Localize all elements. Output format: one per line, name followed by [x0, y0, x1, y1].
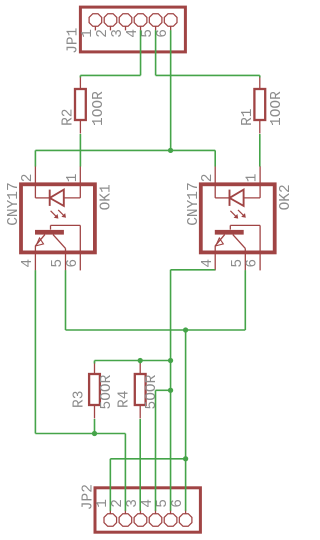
- JP1 pin number 6: [155, 29, 171, 38]
- R4 name label: [116, 391, 132, 408]
- JP1 pin 6 pad circle: [164, 14, 177, 31]
- wire collector rail down to JP2: [185, 330, 187, 511]
- svg-text:6: 6: [245, 259, 261, 268]
- OK1 pin number 4: [20, 259, 36, 268]
- resistor R4 body: [135, 362, 146, 419]
- OK1 value label CNY17: [6, 182, 22, 226]
- connector JP2 box: [95, 488, 200, 532]
- svg-text:2: 2: [110, 499, 126, 508]
- JP1 pin number 5: [140, 29, 156, 38]
- R4 value label 500R: [144, 374, 160, 409]
- JP1 pin 3 pad circle: [119, 14, 132, 31]
- OK1 internal LED (cathode left bar, anode right): [35, 184, 80, 206]
- wire R3/R4 top rail: [95, 361, 171, 364]
- svg-text:6: 6: [65, 259, 81, 268]
- OK2 value label CNY17: [186, 182, 202, 226]
- OK1 pin 2 stub (top-left): [34, 166, 36, 184]
- JP2 pin 2 pad circle: [119, 510, 132, 527]
- JP2 pin number 1: [95, 499, 111, 508]
- OK1 pin 1 stub (top-right): [79, 166, 81, 184]
- resistor R2 body: [75, 77, 86, 134]
- junction collectors/JP2 rail: [183, 327, 188, 332]
- svg-text:R4: R4: [116, 391, 132, 408]
- svg-text:JP2: JP2: [81, 484, 97, 510]
- svg-text:1OOR: 1OOR: [269, 91, 285, 126]
- JP1 pin 5 pad circle: [149, 14, 162, 31]
- svg-text:1: 1: [95, 499, 111, 508]
- svg-text:CNY17: CNY17: [6, 182, 22, 226]
- OK1 pin number 2: [20, 174, 36, 183]
- svg-text:OK1: OK1: [98, 184, 114, 210]
- OK1 pin number 5: [50, 259, 66, 268]
- svg-text:1: 1: [65, 174, 81, 183]
- OK1 pin number 6: [65, 259, 81, 268]
- wire R2 bottom to OK1 pin1: [79, 134, 81, 167]
- OK1 name label: [98, 184, 114, 210]
- svg-text:5: 5: [50, 259, 66, 268]
- svg-text:4: 4: [20, 259, 36, 268]
- svg-text:2: 2: [200, 174, 216, 183]
- resistor R1 body: [254, 77, 265, 134]
- OK2 internal LED (cathode left bar, anode right): [215, 184, 260, 206]
- connector JP1 box: [80, 7, 185, 52]
- wire R3 bottom stub: [94, 419, 96, 434]
- svg-text:6: 6: [155, 29, 171, 38]
- svg-text:4: 4: [125, 29, 141, 38]
- OK2 pin 4 stub (bottom-left): [214, 252, 216, 270]
- svg-text:4: 4: [140, 499, 156, 508]
- R1 name label: [240, 108, 256, 125]
- JP2 pin number 4: [140, 499, 156, 508]
- R1 value label 100R: [269, 91, 285, 126]
- JP1 pin 4 pad circle: [134, 14, 147, 31]
- junction JP2.4 branch: [168, 388, 173, 393]
- JP1 pin 2 pad circle: [104, 14, 117, 31]
- svg-text:3: 3: [110, 29, 126, 38]
- OK2 light arrows: [230, 210, 245, 219]
- wire JP1 pin4 to R2 top: [80, 30, 140, 77]
- OK2 pin number 2: [200, 174, 216, 183]
- wire JP1 pin5 to R1 top: [156, 30, 260, 77]
- svg-text:R3: R3: [71, 391, 87, 408]
- OK1 pin 4 stub (bottom-left): [34, 252, 36, 270]
- wire JP1 pin6 down to junction: [170, 30, 172, 150]
- JP2 pin number 3: [125, 499, 141, 508]
- JP1 pin number 2: [95, 29, 111, 38]
- JP1 pin number 4: [125, 29, 141, 38]
- R3 value label 500R: [99, 374, 115, 409]
- OK2 pin number 5: [230, 259, 246, 268]
- wire R4 top stub: [139, 361, 141, 364]
- JP1 pin 1 pad circle: [89, 14, 102, 31]
- svg-text:5OOR: 5OOR: [144, 374, 160, 409]
- optocoupler OK1 box: [21, 184, 95, 252]
- OK2 name label: [278, 184, 294, 210]
- svg-text:1: 1: [245, 174, 261, 183]
- JP2 pin 6 pad circle: [179, 510, 192, 527]
- wire OK1 pin4 to R3 bottom to JP2 pin2: [35, 270, 125, 511]
- connector JP2 label: [81, 484, 97, 510]
- JP1 pin number 3: [110, 29, 126, 38]
- svg-text:R2: R2: [61, 108, 77, 125]
- R3 name label: [71, 391, 87, 408]
- JP2 pin 4 pad circle: [149, 510, 162, 527]
- svg-text:R1: R1: [240, 108, 256, 125]
- svg-text:1OOR: 1OOR: [91, 91, 107, 126]
- JP2 pin 3 pad circle: [134, 510, 147, 527]
- OK1 pin 5 stub (bottom-mid): [65, 252, 67, 270]
- OK2 pin 5 stub (bottom-mid): [244, 252, 246, 270]
- optocoupler OK2 box: [201, 184, 275, 252]
- wire R1 bottom to OK2 pin1: [259, 134, 261, 167]
- svg-text:2: 2: [20, 174, 36, 183]
- JP2 pin 1 pad circle: [104, 510, 117, 527]
- wire R4 bottom to JP2 pin3: [139, 419, 141, 511]
- junction JP1.6/cathodes: [168, 148, 173, 153]
- R2 value label 100R: [91, 91, 107, 126]
- svg-text:1: 1: [80, 29, 96, 38]
- OK1 light arrows: [51, 210, 66, 219]
- JP2 pin number 2: [110, 499, 126, 508]
- junction JP2.1 branch: [183, 456, 188, 461]
- svg-text:5: 5: [140, 29, 156, 38]
- R2 name label: [61, 108, 77, 125]
- OK2 phototransistor: [215, 225, 260, 252]
- junction R3R4 rail/vertical: [168, 358, 173, 363]
- OK2 pin 6 stub (bottom-right, unconnected): [259, 252, 261, 270]
- svg-text:3: 3: [125, 499, 141, 508]
- junction R4 top: [138, 358, 143, 363]
- OK1 pin number 1: [65, 174, 81, 183]
- JP2 pin 5 pad circle: [164, 510, 177, 527]
- svg-text:JP1: JP1: [66, 28, 82, 54]
- OK1 pin 6 stub (bottom-right, unconnected): [79, 252, 81, 270]
- OK2 pin 1 stub (top-right): [259, 166, 261, 184]
- wire JP2 pin4 branch: [156, 390, 171, 511]
- OK2 pin number 4: [200, 259, 216, 268]
- JP1 pin number 1: [80, 29, 96, 38]
- OK2 pin number 6: [245, 259, 261, 268]
- connector JP1 label: [66, 28, 82, 54]
- OK2 pin 2 stub (top-left): [214, 166, 216, 184]
- wire cathode rail OK1.2 to OK2.2: [35, 150, 215, 166]
- wire JP2 pin1 branch: [110, 459, 185, 511]
- svg-text:5: 5: [230, 259, 246, 268]
- JP2 pin number 5: [155, 499, 171, 508]
- resistor R3 body: [89, 362, 100, 419]
- junction R3 bottom: [92, 431, 97, 436]
- OK2 pin number 1: [245, 174, 261, 183]
- wire collector rail OK1.5 to OK2.5: [66, 270, 246, 330]
- svg-text:6: 6: [170, 499, 186, 508]
- wire OK2 pin4 to vertical rail: [171, 270, 216, 511]
- svg-text:5: 5: [155, 499, 171, 508]
- svg-text:5OOR: 5OOR: [99, 374, 115, 409]
- JP2 pin number 6: [170, 499, 186, 508]
- svg-text:OK2: OK2: [278, 184, 294, 210]
- svg-text:2: 2: [95, 29, 111, 38]
- svg-text:CNY17: CNY17: [186, 182, 202, 226]
- svg-text:4: 4: [200, 259, 216, 268]
- OK1 phototransistor: [35, 225, 80, 252]
